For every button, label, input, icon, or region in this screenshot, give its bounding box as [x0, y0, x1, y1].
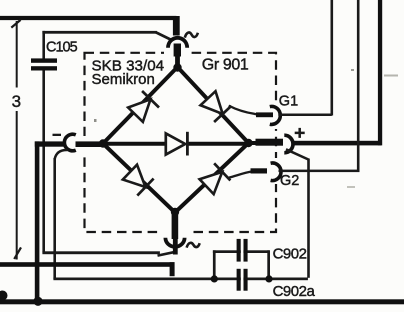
svg-text:Gr 901: Gr 901	[202, 57, 249, 74]
svg-text:G1: G1	[279, 94, 298, 110]
svg-text:C902: C902	[273, 246, 307, 263]
svg-text:Semikron: Semikron	[92, 71, 155, 88]
svg-text:3: 3	[12, 92, 21, 111]
svg-text:G2: G2	[280, 173, 299, 189]
svg-text:C105: C105	[46, 40, 78, 56]
svg-text:C902a: C902a	[273, 283, 316, 300]
